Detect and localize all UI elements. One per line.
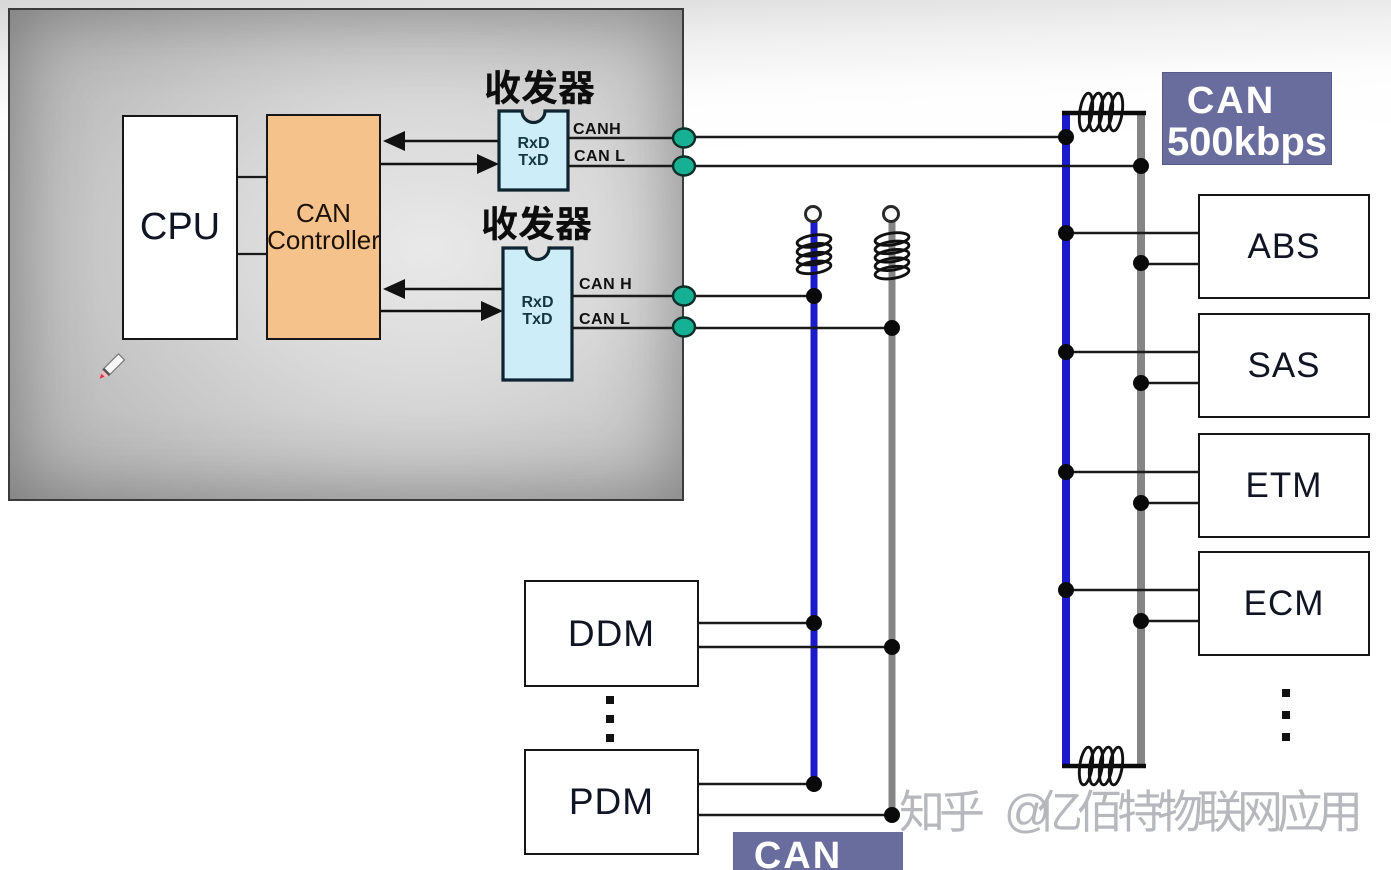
DDM box	[524, 580, 699, 687]
wire CPU-Controller upper	[238, 176, 266, 178]
wire blue bus2 to ABS	[1066, 232, 1198, 234]
wire arrow to controller (bottom, RxD)	[403, 288, 503, 291]
CAN bus 2 blue line (right)	[1062, 111, 1070, 767]
CPU box	[122, 115, 238, 340]
wire PDM to blue bus1	[699, 783, 814, 785]
wire arrow to transceiver2 (TxD)	[381, 310, 483, 313]
inductor coil on blue line	[796, 233, 831, 249]
wire gray bus2 to ABS	[1141, 263, 1198, 265]
wire CPU-Controller lower	[238, 253, 266, 255]
wire node CANH2 to blue bus1	[692, 295, 814, 297]
ETM box	[1198, 433, 1370, 538]
wire PDM to gray bus1	[699, 814, 892, 816]
wire gray bus2 to ECM	[1141, 620, 1198, 622]
CANH / CANL small labels	[573, 121, 621, 139]
teal node CANL (U1)	[673, 157, 695, 176]
CAN 500kbps label	[1162, 72, 1332, 165]
label 收发器 (bottom transceiver)	[483, 206, 517, 241]
wire gray bus2 to ETM	[1141, 502, 1198, 504]
junction dots on blue bus2	[1058, 129, 1074, 145]
SAS box	[1198, 313, 1370, 418]
watermark 知乎 @亿佰特物联网应用	[901, 785, 1358, 837]
transceiver U2 (bottom 收发器 chip)	[503, 248, 572, 380]
teal node CANL (U2)	[673, 318, 695, 337]
wire CANL from U2	[572, 327, 676, 329]
CAN bus 1 blue line (middle)	[811, 221, 818, 789]
wire DDM to blue bus1	[699, 622, 814, 624]
wire CANL from U1	[568, 165, 676, 167]
wire blue bus2 to SAS	[1066, 351, 1198, 353]
bottom terminator resistor between buses	[1062, 764, 1146, 769]
ABS box	[1198, 194, 1370, 299]
open terminal on blue line	[806, 207, 821, 222]
junction dots on gray bus1	[884, 320, 900, 336]
ellipsis below ECM	[1282, 689, 1290, 697]
wire gray bus2 to SAS	[1141, 382, 1198, 384]
ECM box	[1198, 551, 1370, 656]
teal node CANH (U1)	[673, 129, 695, 148]
wire CANH from U2	[572, 295, 676, 297]
microcontroller panel background	[8, 8, 684, 501]
wire node CANH to blue bus2	[692, 136, 1066, 138]
CAN Controller box	[266, 114, 381, 340]
wire blue bus2 to ECM	[1066, 589, 1198, 591]
pencil cursor icon	[97, 354, 125, 382]
junction dots on blue bus1	[806, 288, 822, 304]
CAN bus 2 gray line (right)	[1137, 113, 1145, 766]
CAN (bottom, clipped) label	[733, 832, 903, 870]
inductor coil on gray line	[874, 231, 909, 247]
svg-text:@: @	[1004, 785, 1051, 837]
open terminal on gray line	[884, 207, 899, 222]
CAN bus 1 gray line (middle)	[889, 221, 896, 818]
wire arrow to transceiver1 (TxD)	[381, 163, 479, 166]
wire arrow to controller (top, RxD)	[403, 140, 499, 143]
junction dots on gray bus2	[1133, 158, 1149, 174]
wire CANH from U1	[568, 137, 676, 139]
wire node CANL to gray bus2	[692, 165, 1141, 167]
label 收发器 (top transceiver)	[486, 70, 520, 105]
RxD TxD labels	[499, 135, 568, 169]
teal node CANH (U2)	[673, 287, 695, 306]
PDM box	[524, 749, 699, 855]
top terminator resistor between buses	[1062, 111, 1146, 116]
wire node CANL2 to gray bus1	[692, 327, 892, 329]
ellipsis between DDM and PDM	[606, 696, 614, 704]
transceiver U1 (top 收发器 chip)	[499, 111, 568, 190]
wire blue bus2 to ETM	[1066, 471, 1198, 473]
wire DDM to gray bus1	[699, 646, 892, 648]
